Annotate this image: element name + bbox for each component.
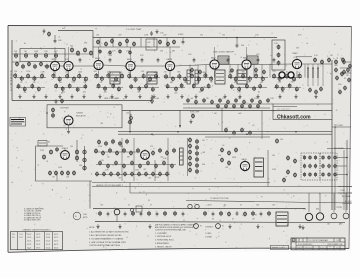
- resistor R24: [277, 44, 280, 49]
- wire: [129, 111, 131, 132]
- resistor R140: [52, 107, 55, 112]
- resistor R88: [201, 87, 204, 92]
- rectifier tube V14: [316, 213, 323, 220]
- resistor R81: [175, 86, 178, 91]
- resistor R94: [254, 73, 257, 79]
- tube V15 tuning eye: [64, 115, 73, 126]
- resistor R251: [220, 211, 223, 216]
- resistor R132: [219, 98, 222, 103]
- resistor R77: [171, 76, 174, 82]
- ground: [256, 224, 259, 228]
- resistor R55: [68, 83, 71, 88]
- tube V7: [242, 56, 251, 69]
- resistor R57: [84, 84, 87, 89]
- resistor R65: [112, 83, 115, 88]
- resistor R220: [235, 147, 238, 152]
- wire: [337, 174, 347, 176]
- output transformer T9: [254, 158, 264, 177]
- resistor R169: [112, 139, 115, 144]
- wire: [251, 63, 292, 66]
- resistor R150: [233, 130, 236, 135]
- wire: [270, 103, 332, 105]
- ground: [298, 224, 301, 228]
- resistor R43: [17, 84, 20, 89]
- resistor R233: [328, 155, 331, 160]
- wire drop x262: [261, 111, 263, 140]
- wire: [121, 138, 123, 181]
- wire drop to tube: [98, 47, 100, 60]
- resistor R12: [105, 41, 108, 46]
- resistor R129: [195, 99, 198, 104]
- ground: [18, 94, 21, 98]
- resistor R116: [315, 89, 318, 94]
- resistor R61: [114, 76, 117, 82]
- resistor R144: [225, 104, 228, 109]
- resistor R66: [117, 86, 120, 91]
- resistor R39: [20, 76, 23, 82]
- resistor R23: [129, 50, 132, 55]
- resistor R241: [287, 169, 290, 174]
- capacitor C14: [107, 212, 110, 217]
- resistor R19: [173, 39, 176, 44]
- wire: [333, 193, 335, 212]
- node: [346, 174, 348, 176]
- wire: [296, 56, 312, 58]
- resistor R119: [349, 63, 352, 68]
- wire row B: [166, 87, 185, 89]
- wire: [346, 61, 351, 63]
- capacitor C11: [257, 58, 260, 63]
- resistor R6: [54, 53, 57, 59]
- channel table column line: [25, 232, 27, 250]
- wire: [183, 107, 270, 109]
- resistor R89: [207, 83, 210, 88]
- resistor R249: [174, 211, 177, 216]
- resistor R100: [259, 83, 262, 88]
- capacitor C20: [236, 211, 239, 216]
- tube V4: [126, 59, 135, 71]
- resistor R158: [75, 155, 78, 161]
- wire: [133, 138, 135, 181]
- resistor R63: [97, 83, 100, 88]
- wire row B: [274, 87, 301, 89]
- ground: [96, 224, 99, 228]
- coil L5: [146, 39, 157, 50]
- wire tube stem: [98, 71, 100, 78]
- wire box top: [122, 110, 332, 112]
- resistor R175: [116, 150, 119, 155]
- wire row A: [94, 77, 124, 79]
- ground: [278, 94, 281, 98]
- resistor R191: [163, 160, 166, 165]
- node: [151, 133, 153, 135]
- wire bus 1: [118, 131, 332, 133]
- resistor R134: [235, 98, 238, 103]
- resistor R214: [189, 167, 192, 172]
- ground: [166, 94, 169, 98]
- resistor R151: [241, 127, 244, 132]
- resistor R120: [343, 69, 346, 74]
- wire: [129, 183, 131, 194]
- capacitor C9: [193, 58, 196, 63]
- node: [129, 131, 131, 133]
- resistor R48: [58, 76, 61, 82]
- ground: [58, 94, 61, 98]
- wire: [92, 182, 270, 184]
- wire tuner bottom: [12, 53, 90, 55]
- resistor R54: [61, 86, 64, 91]
- capacitor C6: [109, 58, 112, 63]
- resistor R106: [275, 84, 278, 89]
- capacitor C13: [55, 99, 58, 104]
- resistor R70: [148, 76, 151, 82]
- resistor R104: [292, 76, 295, 82]
- wire: [236, 38, 238, 44]
- resistor R149: [225, 127, 228, 132]
- wire tube stem: [296, 71, 298, 78]
- wire row A: [52, 77, 88, 79]
- paper grain overlay: [8, 26, 351, 252]
- resistor R180: [159, 148, 162, 153]
- wire tube stem: [169, 71, 171, 78]
- resistor R219: [228, 160, 231, 165]
- resistor R22: [119, 49, 122, 54]
- switch S2: [130, 206, 142, 214]
- resistor R103: [285, 74, 288, 80]
- resistor R36: [335, 59, 338, 64]
- capacitor C2: [150, 31, 153, 36]
- ground: [228, 224, 231, 228]
- resistor R212: [189, 161, 192, 166]
- resistor R34: [321, 59, 324, 64]
- wire row A: [14, 77, 46, 79]
- wire row B: [16, 87, 45, 89]
- channel table column line: [34, 232, 36, 250]
- resistor R27: [16, 61, 19, 66]
- ground: [314, 94, 317, 98]
- choke: [317, 68, 319, 78]
- wire: [76, 140, 78, 162]
- resistor R30: [34, 64, 37, 69]
- resistor R185: [115, 160, 118, 165]
- resistor R247: [148, 211, 151, 216]
- resistor R136: [251, 98, 254, 103]
- capacitor C3: [182, 40, 185, 45]
- resistor R86: [210, 76, 213, 82]
- wire row A: [272, 77, 302, 79]
- filter capacitor can C90: [331, 213, 337, 219]
- resistor R72: [130, 84, 133, 89]
- resistor R9: [83, 47, 86, 53]
- resistor R211: [196, 157, 199, 162]
- wire: [183, 103, 270, 105]
- resistor R109: [295, 87, 298, 92]
- peaking coil L21: [187, 70, 190, 84]
- resistor R177: [130, 150, 133, 155]
- wire bus 3: [130, 192, 352, 194]
- resistor R13: [111, 38, 114, 43]
- title block divider: [306, 238, 308, 242]
- capacitor C21: [260, 212, 263, 217]
- wire right bus 2: [334, 124, 336, 210]
- ground: [238, 94, 241, 98]
- wire: [319, 193, 321, 212]
- tube V11: [141, 149, 150, 159]
- resistor R242: [294, 172, 297, 177]
- wire column: [312, 64, 314, 86]
- resistor R160: [83, 157, 86, 163]
- resistor R98: [245, 83, 248, 88]
- wire: [167, 138, 169, 181]
- wire bus 6: [95, 222, 345, 223]
- resistor R190: [155, 163, 158, 168]
- resistor R146: [241, 104, 244, 109]
- arrow head: [179, 125, 181, 128]
- resistor R205: [196, 139, 199, 144]
- wire: [327, 148, 351, 150]
- resistor R68: [134, 77, 137, 83]
- tube V8B: [288, 72, 294, 78]
- resistor R29: [28, 61, 31, 66]
- resistor R107: [281, 86, 284, 91]
- resistor R11: [97, 39, 100, 44]
- wire right bus 4: [343, 150, 345, 210]
- resistor R78: [178, 74, 181, 80]
- wire: [332, 126, 351, 128]
- resistor R179: [152, 150, 155, 155]
- transformer T6: [218, 56, 229, 64]
- wire: [338, 192, 352, 194]
- resistor R64: [104, 86, 107, 91]
- ground: [110, 94, 113, 98]
- tube V8: [292, 57, 301, 69]
- resistor R126: [347, 67, 350, 72]
- channel table column line: [52, 232, 54, 250]
- wire bus 4: [186, 201, 352, 204]
- wire: [337, 165, 347, 167]
- resistor R199: [138, 171, 141, 176]
- wire: [89, 181, 91, 209]
- resistor R56: [76, 87, 79, 92]
- capacitor C10: [227, 58, 230, 63]
- ground: [42, 29, 45, 33]
- capacitor C8: [157, 58, 160, 63]
- node: [346, 157, 348, 159]
- resistor R108: [288, 83, 291, 88]
- wire drop: [269, 65, 271, 78]
- transformer T7: [247, 56, 258, 64]
- ground: [70, 94, 73, 98]
- border frame bottom: [8, 248, 349, 252]
- resistor R218: [221, 157, 224, 162]
- wire: [267, 150, 269, 187]
- resistor R117: [320, 86, 323, 91]
- wire row B: [96, 87, 123, 89]
- resistor R74: [145, 83, 148, 88]
- wire tube stem: [54, 71, 56, 78]
- resistor R38: [14, 73, 17, 79]
- resistor R114: [263, 69, 266, 74]
- capacitor C4: [236, 43, 239, 48]
- wire B+ bus: [12, 100, 152, 102]
- capacitor C17: [156, 212, 159, 217]
- resistor R32: [46, 64, 49, 69]
- wire: [154, 160, 156, 181]
- wire: [166, 38, 168, 48]
- wire drop: [237, 65, 239, 78]
- resistor R225: [309, 164, 312, 169]
- wire: [54, 35, 56, 39]
- resistor R33: [314, 57, 317, 62]
- resistor R200: [145, 171, 148, 176]
- wire: [153, 38, 155, 48]
- title block divider: [302, 238, 304, 242]
- resistor R47: [52, 73, 55, 79]
- wire: [345, 193, 347, 212]
- resistor R207: [196, 145, 199, 150]
- resistor R171: [126, 139, 129, 144]
- wire: [99, 38, 101, 48]
- wire drop: [253, 65, 255, 78]
- wire bus 2: [118, 133, 332, 135]
- power transformer T10: [276, 212, 288, 226]
- wire: [273, 119, 332, 121]
- ground: [223, 94, 226, 98]
- wire column: [322, 64, 324, 86]
- pilot lamp: [114, 209, 120, 215]
- resistor R115: [309, 87, 312, 92]
- choke: [312, 68, 314, 78]
- coil L12: [38, 141, 47, 147]
- resistor R1: [48, 31, 51, 36]
- wire row C1: [94, 151, 140, 153]
- title block divider: [295, 238, 297, 250]
- IF transformer T1: [110, 72, 120, 84]
- ground: [294, 94, 297, 98]
- wire: [36, 145, 64, 147]
- wire: [187, 138, 189, 176]
- resistor R137: [259, 99, 262, 104]
- wire: [103, 65, 126, 66]
- wire: [68, 125, 70, 129]
- wire drop to tube: [68, 47, 70, 60]
- tuner box: [20, 49, 65, 62]
- resistor R59: [100, 76, 103, 82]
- fuse F1: [188, 204, 192, 208]
- channel table box: [11, 232, 63, 250]
- wire bus 5: [93, 208, 305, 210]
- resistor R173: [102, 150, 105, 155]
- resistor R254: [252, 211, 255, 216]
- resistor R174: [109, 148, 112, 153]
- resistor R121: [348, 77, 351, 82]
- resistor R230: [322, 155, 325, 160]
- wire: [44, 65, 50, 67]
- resistor R128: [187, 98, 190, 103]
- resistor R61: [130, 114, 133, 123]
- wire: [116, 208, 118, 211]
- resistor R145: [233, 104, 236, 109]
- title block divider: [298, 238, 300, 242]
- border frame right: [349, 27, 352, 249]
- resistor R229: [314, 172, 317, 177]
- resistor R80: [166, 84, 169, 89]
- resistor R20: [99, 49, 102, 54]
- resistor R166: [73, 170, 76, 175]
- resistor R73: [138, 86, 141, 91]
- ground: [118, 224, 121, 228]
- resistor R232: [322, 172, 325, 177]
- title block row line 2: [296, 245, 345, 247]
- wire: [92, 31, 94, 59]
- wire: [337, 157, 347, 159]
- resistor R250: [204, 211, 207, 216]
- transformer T8: [180, 148, 184, 165]
- title block revision circle: [292, 239, 295, 243]
- border frame top: [8, 26, 352, 27]
- title block divider: [295, 238, 297, 242]
- resistor R127: [336, 75, 339, 80]
- wire: [116, 215, 118, 222]
- resistor R216: [221, 147, 224, 152]
- resistor R60: [107, 73, 110, 79]
- wire drop: [189, 65, 191, 78]
- resistor R182: [173, 148, 176, 153]
- node: [236, 37, 238, 39]
- resistor R67: [128, 73, 131, 79]
- resistor R170: [119, 141, 122, 146]
- wire drop: [261, 65, 263, 78]
- resistor R83: [190, 73, 193, 79]
- wire: [308, 193, 310, 212]
- tube V8A: [279, 72, 285, 78]
- choke: [307, 68, 309, 78]
- wire: [12, 61, 20, 63]
- resistor R52: [84, 76, 87, 82]
- resistor R153: [192, 113, 195, 118]
- wire: [302, 63, 332, 65]
- resistor R194: [103, 171, 106, 176]
- resistor R235: [328, 172, 331, 177]
- resistor R110: [191, 67, 194, 72]
- resistor R224: [309, 155, 312, 160]
- wire column: [307, 64, 309, 86]
- resistor R192: [171, 163, 174, 168]
- resistor R163: [55, 170, 58, 175]
- resistor R239: [287, 155, 290, 160]
- ground: [189, 119, 192, 123]
- resistor R76: [164, 74, 167, 80]
- wire: [338, 186, 352, 188]
- ground: [256, 94, 259, 98]
- resistor R208: [189, 149, 192, 154]
- sheet box: [271, 245, 289, 249]
- resistor R15: [126, 38, 129, 43]
- resistor R152: [249, 130, 252, 135]
- wire: [182, 38, 184, 40]
- resistor R69: [142, 73, 145, 79]
- capacitor C19: [212, 212, 215, 217]
- ground: [44, 94, 47, 98]
- tube V6: [210, 56, 219, 69]
- resistor R255: [268, 211, 271, 216]
- wire: [35, 146, 37, 181]
- resistor R118: [343, 59, 346, 64]
- resistor R213: [196, 163, 199, 168]
- IF transformer T3: [215, 70, 225, 84]
- wire drop to tube: [169, 47, 171, 60]
- resistor R4: [34, 53, 37, 59]
